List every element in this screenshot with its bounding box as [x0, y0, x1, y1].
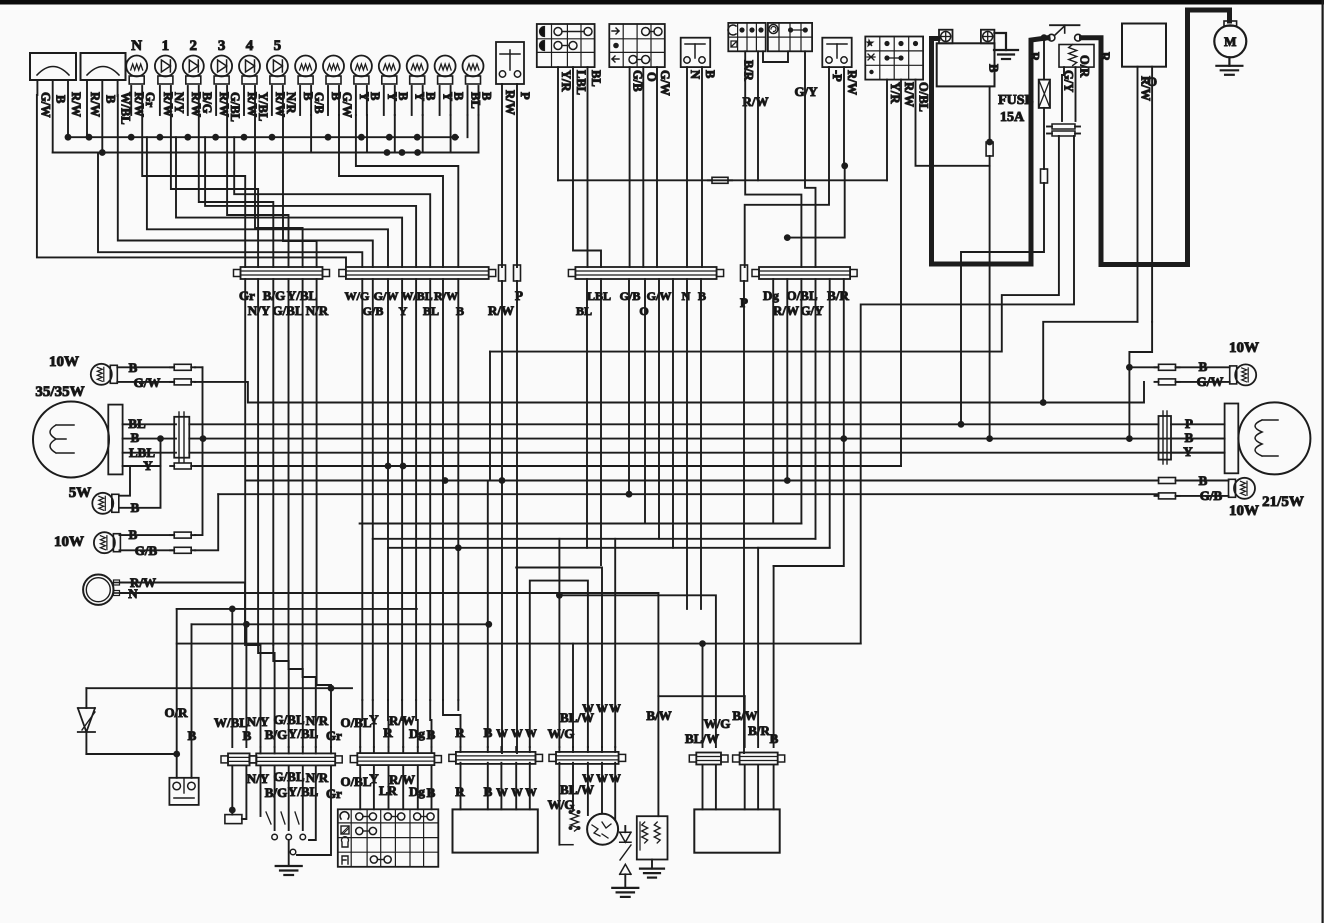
wire N/R	[283, 115, 317, 267]
fuse battery B	[986, 142, 993, 156]
svg-text:B: B	[131, 430, 140, 445]
gauge speedometer	[30, 53, 76, 80]
svg-text:B: B	[103, 95, 117, 103]
wire steps lamps right to strip2	[310, 115, 312, 153]
wire B/R run	[388, 547, 830, 549]
resistor magneto	[571, 810, 579, 831]
wire N/Y	[171, 115, 258, 267]
wire G/W right	[195, 382, 1144, 403]
wire lamp B wires down	[366, 115, 368, 153]
svg-text:B: B	[452, 92, 466, 100]
svg-text:Gr: Gr	[143, 92, 157, 108]
svg-text:O/BL: O/BL	[786, 288, 817, 303]
fuse small	[1041, 169, 1048, 183]
svg-text:B: B	[770, 731, 779, 746]
svg-text:N: N	[682, 289, 691, 303]
svg-text:10W: 10W	[54, 534, 84, 550]
starter relay	[1050, 24, 1080, 26]
svg-text:B/W: B/W	[732, 708, 757, 723]
svg-text:B: B	[484, 725, 493, 740]
wire B down	[191, 624, 193, 778]
wire BL right	[189, 423, 1158, 425]
svg-text:BL: BL	[576, 304, 592, 318]
wire N to coil	[657, 593, 659, 696]
fuse B right2	[1159, 478, 1176, 484]
svg-text:W: W	[511, 787, 523, 799]
svg-text:W: W	[525, 728, 537, 740]
wire W/BL col	[231, 609, 233, 747]
svg-text:P: P	[1185, 416, 1193, 431]
fuse B right	[1159, 364, 1176, 370]
starter/stop switch grid	[865, 37, 923, 80]
wire Y to 5W	[120, 466, 131, 496]
wire G/Y run	[373, 538, 816, 540]
svg-text:N: N	[131, 38, 142, 54]
svg-text:W: W	[582, 703, 594, 715]
svg-text:B/W: B/W	[646, 708, 671, 723]
indicator lamp Y/B	[351, 56, 372, 77]
wire Gr	[142, 115, 245, 267]
connector strip regulator	[456, 752, 536, 764]
svg-text:G/BL: G/BL	[273, 712, 304, 727]
svg-text:O/BL: O/BL	[340, 715, 371, 730]
border right edge	[1321, 0, 1323, 923]
wire B col	[245, 624, 247, 747]
wire B/G	[199, 115, 273, 267]
svg-text:B/G: B/G	[200, 92, 214, 114]
svg-text:B: B	[1199, 473, 1208, 488]
svg-text:Y: Y	[143, 458, 153, 473]
svg-text:W: W	[596, 703, 608, 715]
connector strip 3	[575, 267, 716, 279]
svg-text:R/W: R/W	[434, 289, 458, 303]
svg-text:B: B	[243, 728, 252, 743]
svg-text:G/B: G/B	[135, 543, 158, 558]
svg-text:R: R	[455, 725, 465, 740]
connector headlight 4P	[174, 417, 189, 458]
svg-text:W/BL: W/BL	[401, 289, 432, 303]
junctions Y line	[385, 463, 392, 470]
svg-text:G/W: G/W	[374, 289, 399, 303]
wire B run	[246, 480, 1159, 482]
svg-text:R/W: R/W	[743, 94, 769, 109]
fuse Y	[174, 463, 191, 469]
svg-text:G/B: G/B	[620, 289, 641, 303]
wire N horn	[120, 592, 658, 594]
wire G/B link	[195, 494, 218, 550]
fuse B2	[174, 532, 191, 538]
indicator lamp B/G/B	[295, 56, 316, 77]
border top bar	[0, 0, 1324, 5]
svg-text:10W: 10W	[1229, 340, 1259, 356]
wires to mag strip	[558, 763, 560, 845]
wire O	[642, 67, 644, 267]
wire B	[1171, 438, 1225, 440]
svg-text:B/G: B/G	[265, 785, 287, 800]
svg-text:B: B	[698, 289, 706, 303]
connector pair CDI 1	[696, 753, 721, 765]
svg-text:B: B	[424, 92, 438, 100]
svg-text:G/Y: G/Y	[1062, 70, 1076, 92]
svg-text:O: O	[639, 304, 648, 318]
svg-text:M: M	[1224, 34, 1236, 49]
fuse P2	[741, 265, 748, 281]
svg-text:G/W: G/W	[340, 92, 354, 118]
ignition switch grid	[728, 23, 765, 51]
svg-text:Dg: Dg	[763, 288, 779, 303]
svg-text:Y/BL: Y/BL	[256, 92, 270, 121]
indicator lamp Y/B	[407, 56, 428, 77]
svg-text:B: B	[427, 785, 436, 800]
wire run 609	[177, 608, 417, 610]
wire B/R staircase	[758, 279, 830, 548]
connector box 2P bottom	[169, 778, 198, 805]
starter motor	[1214, 25, 1246, 57]
wire G/B	[629, 67, 631, 267]
svg-text:G/B: G/B	[1200, 488, 1223, 503]
svg-text:P: P	[515, 288, 523, 303]
indicator lamp Y/B	[435, 56, 456, 77]
battery ground	[994, 33, 1006, 50]
svg-text:Dg: Dg	[409, 726, 425, 741]
svg-text:R/W: R/W	[503, 90, 517, 116]
coil ground	[651, 860, 653, 869]
wire bus B	[53, 152, 479, 154]
svg-text:G/BL: G/BL	[272, 303, 303, 318]
regulator box	[453, 809, 538, 852]
wire diode link	[86, 753, 176, 755]
tail light 21/5W	[1238, 402, 1310, 474]
svg-text:O/BL: O/BL	[917, 82, 931, 112]
svg-text:4: 4	[246, 38, 254, 54]
svg-text:G/W: G/W	[647, 289, 672, 303]
strip2 cols to switch strip	[360, 700, 362, 747]
wire B right	[195, 366, 203, 368]
connector small W/BL B	[228, 753, 250, 765]
wire R/W connector down	[843, 67, 845, 166]
wire BL/W col	[572, 644, 574, 747]
svg-text:LBL: LBL	[574, 70, 588, 95]
svg-text:R/W: R/W	[488, 303, 514, 318]
svg-text:B: B	[456, 304, 464, 318]
svg-text:BL: BL	[423, 304, 439, 318]
battery	[937, 43, 995, 86]
svg-text:1: 1	[162, 38, 170, 54]
svg-text:W: W	[609, 773, 621, 785]
thick starter cable right	[1082, 10, 1230, 265]
svg-text:Dg: Dg	[409, 784, 425, 799]
svg-text:35/35W: 35/35W	[35, 384, 84, 400]
svg-text:B/G: B/G	[265, 727, 287, 742]
svg-text:3: 3	[218, 38, 226, 54]
CDI box	[694, 809, 779, 852]
connector G/Y capacitor	[1052, 124, 1075, 129]
svg-text:BL: BL	[589, 70, 603, 87]
wire stop Y/R	[886, 80, 888, 181]
svg-text:Gr: Gr	[239, 288, 255, 303]
svg-text:G/W: G/W	[658, 70, 672, 96]
spark plug	[620, 832, 631, 842]
svg-text:Y/BL: Y/BL	[287, 288, 318, 303]
spark plug ground	[612, 887, 638, 889]
svg-text:Y/R: Y/R	[888, 82, 902, 105]
svg-text:P: P	[740, 295, 748, 310]
wire B staircase	[774, 279, 844, 566]
wire B link	[195, 367, 203, 535]
svg-text:B/G: B/G	[263, 288, 285, 303]
svg-text:N/Y: N/Y	[172, 92, 186, 114]
fuse G/B right	[1159, 493, 1176, 499]
wire run 644	[177, 643, 861, 645]
wire W/G col	[558, 539, 560, 747]
svg-text:N/R: N/R	[306, 303, 329, 318]
wire R/W jog to strip4	[787, 166, 844, 238]
wire G/B run	[218, 493, 1158, 495]
svg-text:10W: 10W	[49, 354, 79, 370]
connector strip 1	[241, 267, 323, 279]
wire Y	[1171, 452, 1225, 454]
connector strip magneto	[556, 752, 619, 764]
wire R/W long	[558, 179, 887, 181]
ignition coil	[637, 816, 668, 859]
svg-text:W/G: W/G	[548, 726, 575, 741]
wire B/W top	[658, 695, 744, 697]
wires to reg strip	[443, 700, 461, 747]
wire regulator O run	[1129, 322, 1152, 368]
svg-text:R/W: R/W	[845, 70, 859, 96]
svg-text:15A: 15A	[1000, 110, 1025, 125]
wire Y/BL	[255, 115, 303, 267]
wire G/Y relay run	[490, 136, 1059, 352]
svg-text:B: B	[484, 784, 493, 799]
fuse R/W	[499, 265, 506, 281]
svg-text:BL/W: BL/W	[685, 731, 719, 746]
svg-text:R: R	[1098, 52, 1112, 62]
connector 2P R/W P	[496, 42, 524, 84]
fuse G/B	[174, 547, 191, 553]
turn signal switch grid	[609, 24, 665, 67]
svg-text:R/W: R/W	[88, 92, 102, 118]
connector strip 4	[759, 267, 850, 279]
magneto alternator	[587, 814, 618, 845]
wire P	[1171, 423, 1225, 425]
indicator lamp BL/B	[463, 56, 484, 77]
svg-text:B: B	[480, 92, 494, 100]
wire B drop	[1129, 366, 1158, 368]
svg-text:N/Y: N/Y	[247, 771, 270, 786]
connector tail 3P	[1159, 416, 1172, 460]
wire O/BL run	[360, 523, 802, 525]
connector 2P P R/W	[822, 38, 851, 67]
wire stop R/W	[900, 80, 902, 466]
wire fuse to col961	[961, 183, 1044, 424]
turn signal switch contacts	[274, 766, 276, 830]
wire W loop 1	[516, 568, 602, 748]
svg-text:Y: Y	[369, 771, 379, 786]
svg-text:G/BL: G/BL	[228, 92, 242, 122]
svg-text:BL: BL	[128, 416, 146, 431]
wire G/Y to strip4	[805, 51, 816, 267]
motor ground	[1216, 65, 1242, 67]
horn	[83, 575, 113, 605]
wire steps to strip2	[37, 95, 346, 267]
svg-text:B: B	[1199, 359, 1208, 374]
dimmer switch grid	[537, 24, 595, 67]
svg-text:B: B	[129, 360, 138, 375]
svg-text:G/W: G/W	[134, 375, 161, 390]
connector 2P N B	[681, 38, 711, 67]
wire run 624	[192, 623, 489, 625]
svg-text:W: W	[596, 773, 608, 785]
wire LBL	[573, 67, 601, 267]
fuse B	[174, 364, 191, 370]
svg-text:B/R: B/R	[748, 723, 770, 738]
svg-text:R: R	[455, 784, 465, 799]
connector strip bottom L	[256, 753, 335, 765]
svg-text:B: B	[54, 95, 68, 103]
gauge tachometer	[81, 53, 126, 80]
wire BL	[587, 67, 589, 267]
svg-text:B: B	[427, 727, 436, 742]
wire B right2	[189, 438, 1224, 440]
svg-text:B: B	[703, 70, 717, 78]
wire LBL right	[189, 452, 1224, 454]
svg-text:-P: -P	[830, 70, 844, 82]
fuse G/W right	[1159, 379, 1176, 385]
svg-text:B: B	[987, 64, 1001, 72]
svg-text:B: B	[368, 92, 382, 100]
handlebar switch matrix	[338, 809, 439, 867]
svg-text:W: W	[496, 787, 508, 799]
fuse G/W	[174, 379, 191, 385]
wire R/W horn	[120, 583, 245, 644]
svg-text:W: W	[496, 728, 508, 740]
svg-text:B: B	[129, 527, 138, 542]
connector strip switch	[357, 753, 434, 765]
wire diode top	[86, 687, 352, 689]
svg-text:W: W	[525, 787, 537, 799]
svg-text:LBL: LBL	[587, 289, 611, 303]
wire BL	[123, 423, 176, 425]
svg-text:5W: 5W	[69, 485, 92, 501]
svg-text:B: B	[1185, 430, 1194, 445]
svg-text:G/Y: G/Y	[800, 303, 824, 318]
svg-text:W/G: W/G	[345, 289, 370, 303]
svg-text:G/B: G/B	[312, 92, 326, 114]
svg-text:Y: Y	[369, 712, 379, 727]
wire B	[123, 438, 176, 440]
svg-text:2: 2	[190, 38, 198, 54]
wire regulator R/W run	[1043, 322, 1137, 403]
svg-text:O: O	[644, 72, 658, 82]
svg-text:N/Y: N/Y	[248, 303, 271, 318]
svg-text:O/BL: O/BL	[340, 774, 371, 789]
svg-text:N/R: N/R	[284, 92, 298, 115]
svg-text:G/W: G/W	[1197, 374, 1224, 389]
wire O/R relay run	[861, 136, 1074, 644]
svg-text:Y/R: Y/R	[559, 70, 573, 93]
svg-text:G/W: G/W	[38, 92, 52, 118]
connector strip 2	[346, 267, 489, 279]
wires to CDI	[702, 644, 704, 747]
svg-text:10W: 10W	[1229, 503, 1259, 519]
svg-text:G/B: G/B	[631, 70, 645, 92]
wire O/R down	[176, 609, 178, 778]
svg-text:B/R: B/R	[742, 60, 756, 82]
connector pair CDI 2	[740, 753, 778, 765]
thick battery cable left	[932, 38, 1049, 264]
svg-text:21/5W: 21/5W	[1262, 494, 1304, 510]
svg-text:G/Y: G/Y	[794, 84, 818, 99]
svg-text:O/R: O/R	[1078, 55, 1092, 78]
svg-text:W: W	[511, 728, 523, 740]
svg-text:Y: Y	[1183, 444, 1193, 459]
svg-text:N/R: N/R	[306, 770, 329, 785]
wire B/W to coil	[657, 696, 659, 816]
wire B/R to strip4	[745, 51, 801, 267]
wire Y/R	[557, 67, 559, 180]
resistor inline	[712, 177, 728, 183]
junction	[986, 139, 993, 146]
svg-text:P: P	[518, 92, 532, 100]
svg-text:R: R	[1028, 52, 1042, 62]
wire 5W B	[120, 439, 161, 508]
svg-text:W: W	[582, 773, 594, 785]
wire P connector to fuse	[745, 67, 829, 267]
wire Y right	[195, 465, 901, 467]
indicator lamp B/G/W	[323, 56, 344, 77]
wire LBL	[123, 452, 176, 454]
strip1 to bottom jogs	[245, 645, 260, 747]
fuse P	[514, 265, 521, 281]
regulator rectifier box	[1122, 24, 1166, 67]
wire battery B col	[986, 435, 993, 442]
wire W/G branch	[559, 595, 716, 747]
flasher relay	[231, 766, 233, 815]
svg-text:W/G: W/G	[548, 797, 575, 812]
svg-text:Y: Y	[399, 304, 408, 318]
wire Y	[123, 465, 161, 467]
indicator lamp Y/B	[379, 56, 400, 77]
svg-text:Gr: Gr	[326, 728, 342, 743]
switch ground	[288, 841, 290, 866]
svg-text:Y/BL: Y/BL	[288, 726, 319, 741]
svg-text:R/W: R/W	[902, 82, 916, 108]
svg-text:W/G: W/G	[704, 716, 731, 731]
wire O/BL right	[916, 80, 990, 166]
wire bus R/W	[68, 136, 458, 138]
svg-text:B: B	[131, 500, 140, 515]
svg-text:5: 5	[274, 38, 282, 54]
svg-text:R/W: R/W	[69, 92, 83, 118]
svg-text:N: N	[688, 70, 702, 79]
svg-text:O: O	[1147, 74, 1157, 89]
svg-text:B: B	[396, 92, 410, 100]
wire G/W	[656, 67, 658, 267]
wire G/BL	[227, 115, 288, 267]
diode	[85, 688, 87, 708]
wire W loop 2	[530, 581, 588, 747]
svg-text:R/W: R/W	[773, 303, 799, 318]
svg-text:G/B: G/B	[363, 304, 384, 318]
svg-text:W: W	[609, 703, 621, 715]
